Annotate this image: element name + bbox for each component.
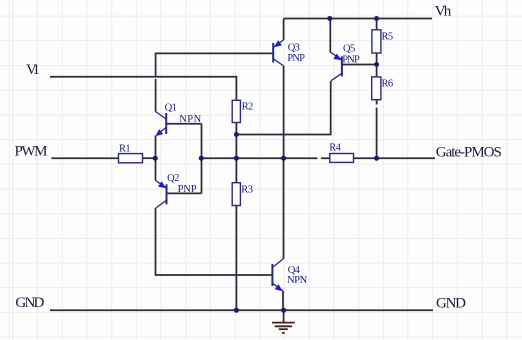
junction bases <box>199 156 204 161</box>
svg-text:PNP: PNP <box>342 55 360 66</box>
svg-text:GND: GND <box>436 296 466 312</box>
svg-text:R2: R2 <box>242 101 253 112</box>
wire Q1 emitter junction down to Q2 <box>155 136 157 181</box>
svg-text:Q3: Q3 <box>288 43 300 54</box>
wire output node down to Q4 collector <box>283 158 285 259</box>
svg-text:Q1: Q1 <box>165 103 177 114</box>
transistor Q4 <box>272 259 283 291</box>
transistor Q2 <box>156 180 167 208</box>
svg-text:NPN: NPN <box>287 275 308 286</box>
junction R2 bottom <box>234 132 239 137</box>
svg-text:PNP: PNP <box>178 184 197 195</box>
transistor Q5 <box>330 52 342 80</box>
svg-text:NPN: NPN <box>179 114 201 125</box>
transistor Q3 <box>273 40 283 66</box>
junction Q4 emitter/GND <box>281 308 286 313</box>
svg-text:R1: R1 <box>119 143 130 154</box>
svg-text:Q2: Q2 <box>167 173 179 184</box>
wire Q3 collector to output node <box>283 66 285 158</box>
wire R5 top to Vh rail <box>376 19 378 30</box>
wire R3 top <box>235 158 237 183</box>
wire R4 to Gate-PMOS <box>354 157 436 159</box>
wire Q5 emitter to Vh rail <box>329 19 331 53</box>
junction Vh/Q5 <box>327 16 332 21</box>
svg-text:GND: GND <box>15 295 44 311</box>
svg-text:PNP: PNP <box>287 53 305 64</box>
ground <box>272 310 295 333</box>
resistor R6 <box>372 77 381 100</box>
svg-text:Vh: Vh <box>435 4 452 20</box>
junction Vh/R5 <box>374 16 379 21</box>
wire Q3 base to Q1 collector <box>156 53 274 111</box>
wire Q1 base <box>166 123 201 125</box>
wire Q1/Q2 base tie <box>201 124 203 194</box>
wire R3 bottom to GND <box>235 206 237 311</box>
resistor R4 <box>330 154 354 163</box>
svg-text:R5: R5 <box>382 32 393 43</box>
svg-text:R4: R4 <box>329 142 341 153</box>
resistor R2 <box>232 100 240 122</box>
wire R1 to emitter junction <box>143 157 156 159</box>
wire R6 bottom to Gate-PMOS line <box>376 100 378 159</box>
junction R6/Gate-PMOS <box>374 156 379 161</box>
node V1 wire <box>50 77 236 101</box>
resistor R1 <box>119 154 143 163</box>
svg-text:Q5: Q5 <box>343 44 355 55</box>
wire Q3 emitter to Vh rail <box>283 19 285 40</box>
wire Q2 base <box>167 192 202 194</box>
svg-text:Gate-PMOS: Gate-PMOS <box>436 144 502 160</box>
junction R2/R3 row <box>234 156 239 161</box>
wire R2/Q5 collector link <box>236 81 330 135</box>
wire Q2 collector to Q4 base <box>156 208 273 275</box>
node PWM wire <box>51 157 118 159</box>
node GND bottom rail <box>50 309 433 311</box>
svg-text:PWM: PWM <box>15 144 48 160</box>
wire middle row junction to R4 <box>202 157 331 159</box>
svg-text:R6: R6 <box>382 79 393 90</box>
wire Q5 base to R5/R6 node <box>342 64 377 66</box>
node Vh top rail wire <box>284 18 432 20</box>
wire Q4 emitter to ground <box>282 291 284 310</box>
wire R2 bottom to junction <box>235 123 237 159</box>
transistor Q1 <box>156 112 167 135</box>
svg-text:V1: V1 <box>26 62 40 78</box>
svg-text:R3: R3 <box>241 185 252 196</box>
junction output node <box>281 156 286 161</box>
junction R3/GND <box>234 308 239 313</box>
resistor R5 <box>372 30 381 53</box>
junction R1/emitters <box>153 156 158 161</box>
wire R5 bottom to Q5 base node <box>376 53 378 77</box>
resistor R3 <box>232 183 240 206</box>
junction R5/R6/Q5 base <box>374 62 379 67</box>
